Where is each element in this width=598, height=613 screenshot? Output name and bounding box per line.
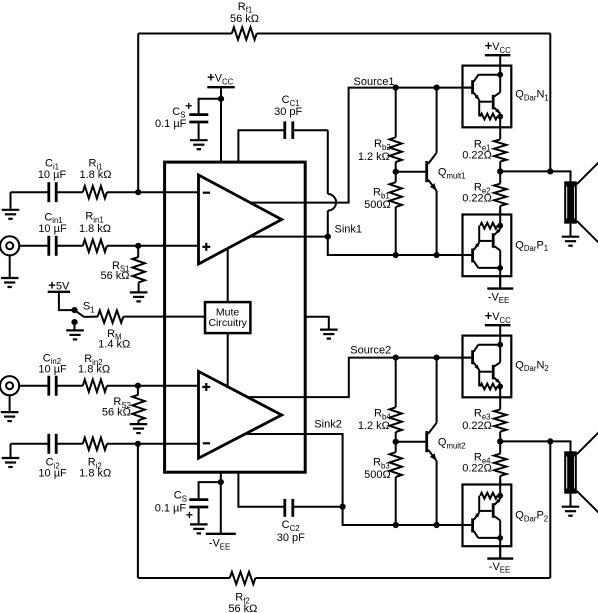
svg-text:30 pF: 30 pF [274,106,302,118]
node Sink2 CC2 junction [340,504,346,510]
wire Ri1 to op-amp inverting input [107,191,199,193]
wire Cin2-Rin2 [56,385,83,387]
node Qmult2 base [393,439,399,445]
svg-text:-VEE: -VEE [488,291,509,305]
wire input1 left [11,191,49,193]
node Sink2 Qmult2 emitter tap [434,522,440,528]
svg-text:1.8 kΩ: 1.8 kΩ [78,364,110,376]
wire Rf2 bottom rail left segment [138,577,230,579]
RCA jack input 1 [0,236,19,255]
svg-text:0.22Ω: 0.22Ω [462,420,492,432]
wire Rf1 top rail right segment [257,33,551,35]
svg-text:56 kΩ: 56 kΩ [228,603,257,613]
resistor Rin1 [79,211,111,253]
wire Rf2 feedback left vertical [137,444,139,578]
svg-text:QDarP1: QDarP1 [515,239,548,253]
ground speaker 2 [562,494,580,516]
svg-text:+: + [186,508,193,522]
op-amp U1B [199,371,282,458]
wire op-amp1 to mute [227,248,229,302]
IC amplifier box [165,162,306,472]
op-amp U1A [199,175,282,264]
capacitor CC2 [277,499,305,544]
ground RS1 [130,292,148,301]
wire Source1 from op-amp [250,88,471,203]
capacitor Ci1 [38,157,67,202]
wire input4 left [11,443,49,445]
mute circuitry block [205,302,250,333]
resistor Rin2 [78,353,110,392]
node feedback tap 1 [547,168,553,174]
wire RM to mute circuitry [123,316,205,318]
wire Ci1-Ri1 [56,191,83,193]
svg-text:Source2: Source2 [350,344,391,356]
svg-text:QDarN1: QDarN1 [515,89,548,103]
label Source2 [350,344,391,356]
svg-text:56 kΩ: 56 kΩ [230,13,259,25]
ground S1 [66,322,84,339]
svg-text:0.22Ω: 0.22Ω [462,463,492,475]
wire Rf2 bottom rail right segment [255,577,550,579]
resistor Ri1 [79,157,111,198]
svg-text:10 µF: 10 µF [38,223,67,235]
wire +VCC into IC [220,87,222,162]
resistor Rb3 [364,442,402,525]
ground CS top [190,140,208,149]
resistor RS2 [102,386,145,424]
svg-text:Sink1: Sink1 [335,223,363,235]
svg-text:1.8 kΩ: 1.8 kΩ [79,223,111,235]
ground RCA jack 2 [1,394,19,421]
resistor Rb4 [358,358,402,442]
svg-text:30 pF: 30 pF [277,532,305,544]
svg-text:500Ω: 500Ω [364,469,391,481]
node Source1 Rb2 tap [393,85,399,91]
ground input4 [2,444,20,467]
svg-text:Source1: Source1 [354,76,395,88]
darlington QDarN1 [463,55,549,133]
svg-text:1.8 kΩ: 1.8 kΩ [79,468,111,480]
node Sink1 [325,234,331,240]
wire Rf2 feedback right vertical [549,441,551,578]
wire jack1 to Cin1 [18,245,48,247]
wire IC ground stub [305,317,329,329]
supply +VCC for QDarN2 [485,308,512,325]
svg-text:+VCC: +VCC [207,70,234,87]
supply -VEE for QDarP2 [487,546,513,575]
wire to CS top [199,99,221,114]
node feedback tap 2 [547,438,553,444]
ground IC [320,330,338,339]
switch S1 arm [75,300,98,317]
wire to CS bottom [199,482,221,499]
wire Sink2 from op-amp [245,434,471,525]
ground input1 [2,192,20,219]
wire -VEE from IC [220,472,222,534]
wire Rin2 to op-amp 2 non-inverting input [107,385,199,387]
capacitor Cin1 [38,211,67,256]
svg-text:500Ω: 500Ω [364,199,391,211]
node non-inverting input 1 [135,243,141,249]
wire Cin1-Rin1 [56,245,83,247]
svg-text:Circuitry: Circuitry [208,317,247,329]
supply +5V [48,277,70,292]
svg-text:+: + [185,99,192,113]
svg-text:10 µF: 10 µF [38,169,67,181]
darlington QDarP1 [463,210,549,288]
supply +VCC for QDarN1 [485,38,512,55]
node Sink1 Qmult1 emitter tap [434,252,440,258]
svg-text:CC2: CC2 [282,519,300,533]
wire Rf1 feedback right vertical [549,34,551,172]
supply -VEE for IC [206,534,236,552]
svg-text:10 µF: 10 µF [38,364,67,376]
ground speaker 1 [562,224,580,246]
resistor Rb1 [364,172,402,255]
svg-text:+VCC: +VCC [485,38,512,55]
resistor RS1 [100,246,144,292]
wire output2 to speaker [500,441,570,452]
svg-text:S1: S1 [83,300,95,314]
svg-text:Qmult1: Qmult1 [438,166,466,180]
node Source1 Qmult1 collector tap [434,85,440,91]
svg-text:-VEE: -VEE [209,538,230,552]
darlington QDarN2 [463,325,549,403]
wire Ri2 to op-amp 2 inverting input [107,443,199,445]
wire mute to op-amp2 [227,333,229,386]
capacitor CS top [155,99,208,130]
label Sink2 [314,418,342,430]
resistor Re4 [462,441,506,484]
transistor Qmult1 [396,88,466,255]
resistor Re1 [462,133,506,171]
wire Ci2-Ri2 [56,443,83,445]
resistor RM [98,310,131,350]
wire CC1 right lead with hop over Source1 [293,130,336,236]
svg-text:0.1 µF: 0.1 µF [155,503,187,515]
darlington QDarP2 [463,480,549,558]
node Source2 Qmult2 collector tap [434,355,440,361]
wire Sink1 from op-amp [250,236,328,238]
wire Sink1 extension [328,237,472,255]
node +VCC / CS junction [218,96,224,102]
supply -VEE for QDarP1 [487,276,513,305]
svg-text:+VCC: +VCC [485,308,512,325]
svg-text:+5V: +5V [48,277,70,292]
capacitor CC1 [274,94,302,139]
wire jack2 to Cin2 [18,385,49,387]
svg-text:QDarN2: QDarN2 [515,359,548,373]
wire CC2 left lead [238,472,283,507]
node inverting input 2 [135,441,141,447]
speaker load 2 [565,432,598,513]
wire CS bottom to ground [198,507,200,524]
node inverting input 1 [135,189,141,195]
resistor Rf2 [228,572,257,613]
svg-text:1.4 kΩ: 1.4 kΩ [98,339,130,351]
transistor Qmult2 [396,358,466,525]
svg-text:-VEE: -VEE [489,561,510,575]
svg-text:Qmult2: Qmult2 [438,436,466,450]
node Sink1 Rb1 tap [393,252,399,258]
label Sink1 [335,223,363,235]
resistor Rb2 [358,88,402,172]
svg-text:1.8 kΩ: 1.8 kΩ [79,169,111,181]
supply +VCC for IC [207,70,235,88]
ground RS2 [130,424,148,433]
label Source1 [354,76,395,88]
ground RCA jack 1 [1,255,19,288]
svg-text:56 kΩ: 56 kΩ [100,270,129,282]
node -VEE / CS junction [218,479,224,485]
svg-text:QDarP2: QDarP2 [515,510,548,524]
capacitor CS bottom [155,490,209,522]
resistor Ri2 [79,438,111,480]
svg-text:1.2 kΩ: 1.2 kΩ [358,151,390,163]
node S1 throw +5V [71,307,77,313]
resistor Rf1 [230,1,259,40]
svg-text:10 µF: 10 µF [38,468,67,480]
resistor Re2 [462,171,506,214]
node Source2 Rb4 tap [393,355,399,361]
svg-text:0.22Ω: 0.22Ω [462,150,492,162]
wire Rf1 feedback left vertical [137,34,139,193]
wire CC2 right lead [293,506,343,508]
wire CS top to ground [198,122,200,140]
wire Source2 from op-amp [248,358,472,398]
resistor Re3 [462,403,506,441]
node Sink2 Rb3 tap [393,522,399,528]
node output 2 [497,438,503,444]
svg-text:56 kΩ: 56 kΩ [102,407,131,419]
wire Rf1 top rail left segment [138,33,232,35]
node Qmult1 base [393,169,399,175]
node S1 throw ground [71,319,77,325]
speaker load 1 [565,162,598,243]
wire Rin1 to op-amp non-inverting input [107,245,199,247]
capacitor Ci2 [38,434,67,480]
node output 1 [497,168,503,174]
svg-text:Sink2: Sink2 [314,418,342,430]
RCA jack input 2 [0,376,19,395]
svg-text:1.2 kΩ: 1.2 kΩ [358,420,390,432]
capacitor Cin2 [38,352,67,395]
svg-text:0.1 µF: 0.1 µF [155,118,187,130]
node non-inverting input 2 [135,383,141,389]
svg-text:0.22Ω: 0.22Ω [462,193,492,205]
wire CC1 left lead [238,130,283,162]
svg-text:CS: CS [174,490,187,504]
ground CS bottom [190,524,208,533]
wire +5V to switch [59,292,75,310]
wire output1 to speaker [500,171,570,182]
